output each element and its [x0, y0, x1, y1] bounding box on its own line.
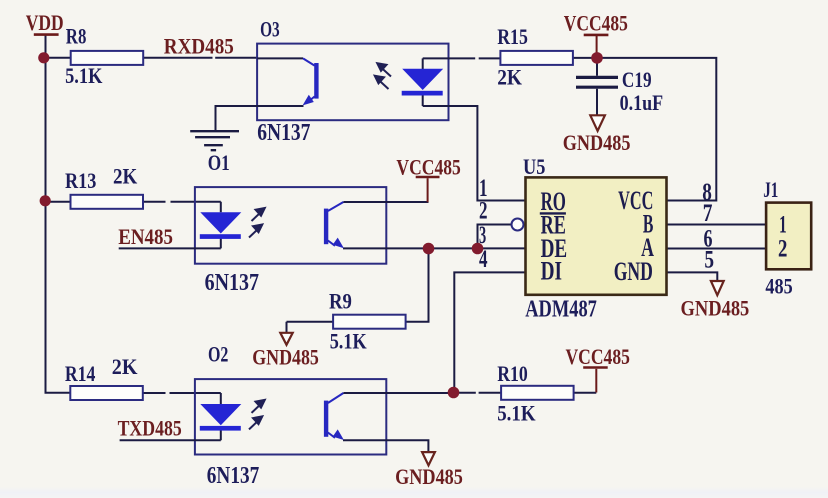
svg-text:O3: O3: [260, 16, 280, 41]
svg-text:6N137: 6N137: [207, 463, 259, 489]
svg-text:4: 4: [479, 246, 488, 273]
svg-text:GND485: GND485: [681, 296, 750, 321]
svg-text:GND485: GND485: [252, 344, 319, 369]
svg-text:R15: R15: [497, 24, 528, 49]
svg-text:TXD485: TXD485: [118, 416, 182, 441]
svg-text:GND485: GND485: [395, 464, 463, 489]
svg-text:2K: 2K: [112, 354, 138, 379]
svg-text:VCC485: VCC485: [564, 10, 628, 35]
svg-text:R13: R13: [65, 168, 96, 193]
svg-text:5.1K: 5.1K: [330, 329, 367, 354]
svg-text:J1: J1: [763, 177, 778, 202]
svg-text:EN485: EN485: [118, 224, 173, 249]
svg-text:GND: GND: [614, 257, 653, 286]
svg-text:U5: U5: [523, 154, 545, 179]
svg-text:2K: 2K: [113, 163, 137, 188]
svg-text:7: 7: [703, 200, 713, 227]
svg-text:R10: R10: [497, 361, 528, 386]
svg-text:3: 3: [479, 222, 486, 249]
svg-text:VCC485: VCC485: [566, 344, 630, 369]
svg-text:O2: O2: [208, 342, 228, 367]
svg-text:2: 2: [479, 198, 488, 225]
svg-text:2K: 2K: [497, 65, 522, 90]
svg-text:485: 485: [765, 273, 792, 298]
svg-text:R9: R9: [329, 289, 352, 314]
svg-text:ADM487: ADM487: [525, 297, 597, 323]
svg-text:VCC485: VCC485: [396, 155, 460, 180]
svg-text:0.1uF: 0.1uF: [620, 90, 664, 115]
svg-text:5.1K: 5.1K: [497, 401, 535, 426]
svg-text:O1: O1: [208, 150, 230, 175]
svg-text:6N137: 6N137: [205, 270, 259, 296]
svg-text:6N137: 6N137: [257, 120, 310, 146]
svg-text:RXD485: RXD485: [164, 34, 234, 59]
svg-text:R14: R14: [65, 361, 96, 386]
svg-text:2: 2: [778, 235, 787, 262]
svg-text:5.1K: 5.1K: [65, 63, 102, 88]
svg-text:R8: R8: [66, 24, 87, 49]
svg-text:GND485: GND485: [563, 130, 631, 155]
svg-text:VDD: VDD: [26, 10, 64, 35]
svg-text:DI: DI: [541, 257, 562, 286]
svg-text:5: 5: [704, 247, 714, 274]
svg-text:C19: C19: [622, 67, 652, 92]
